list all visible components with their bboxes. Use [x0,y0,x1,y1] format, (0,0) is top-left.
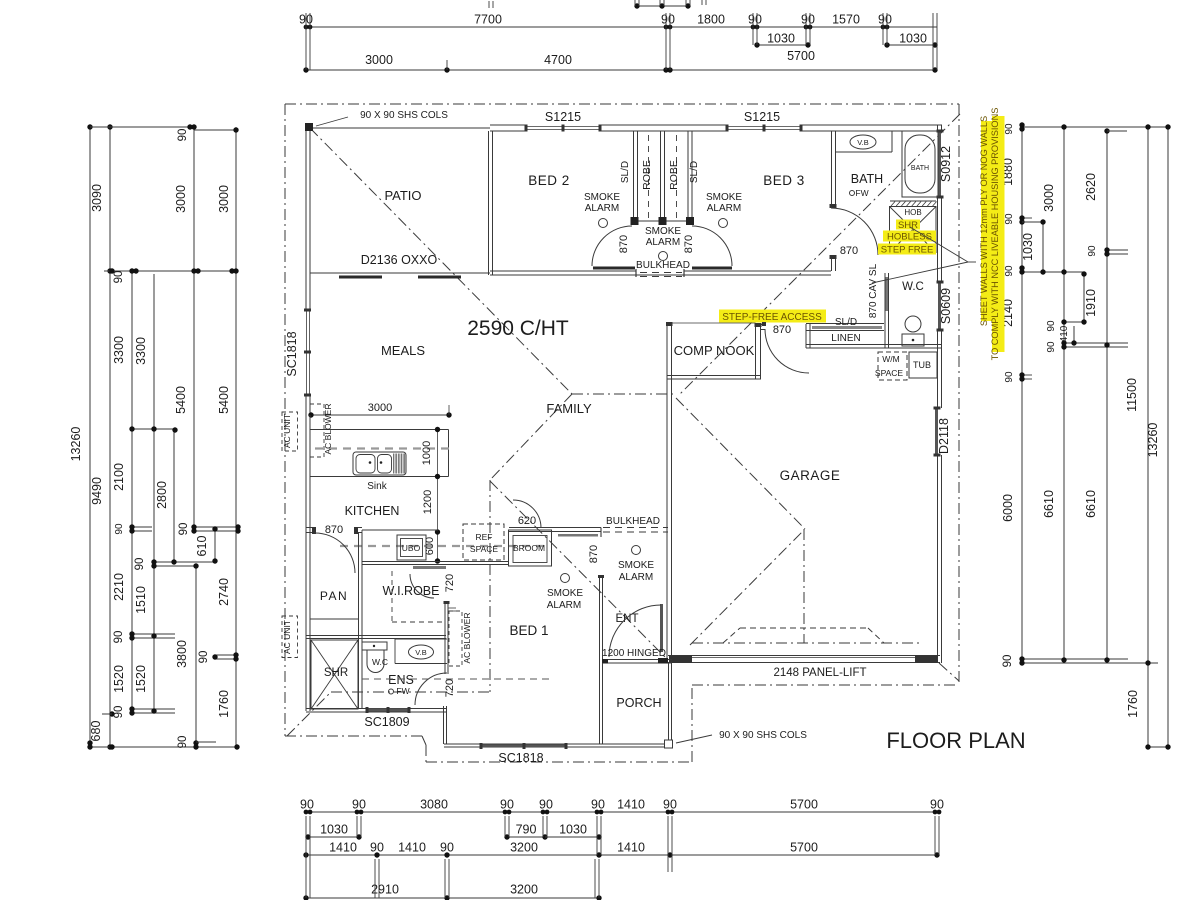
svg-text:MEALS: MEALS [381,343,425,358]
svg-text:3300: 3300 [134,337,148,365]
svg-text:1200: 1200 [422,490,434,514]
svg-text:SHR: SHR [898,220,918,231]
svg-text:1410: 1410 [617,798,645,812]
svg-text:90: 90 [113,631,125,644]
svg-text:3000: 3000 [365,53,393,67]
svg-text:13260: 13260 [1146,423,1160,458]
svg-text:TO COMPLY WITH NCC LIVEABLE HO: TO COMPLY WITH NCC LIVEABLE HOUSING PROV… [990,108,1000,361]
svg-text:3300: 3300 [112,336,126,364]
svg-text:90: 90 [178,523,190,536]
svg-text:6610: 6610 [1042,490,1056,518]
svg-text:90 X 90 SHS COLS: 90 X 90 SHS COLS [360,110,448,121]
svg-text:90: 90 [748,13,762,27]
svg-text:AC UNIT: AC UNIT [282,620,292,654]
svg-text:870: 870 [325,524,343,536]
svg-text:SC1809: SC1809 [364,715,409,729]
svg-text:90: 90 [878,13,892,27]
svg-text:FW: FW [396,686,409,696]
svg-text:1510: 1510 [134,586,148,614]
svg-text:2100: 2100 [112,463,126,491]
svg-text:ROBE: ROBE [668,160,680,190]
svg-text:1410: 1410 [329,841,357,855]
svg-text:90: 90 [177,736,189,749]
svg-text:PATIO: PATIO [384,188,421,203]
svg-text:1910: 1910 [1084,289,1098,317]
svg-text:SMOKE: SMOKE [645,226,681,237]
svg-text:90: 90 [1004,123,1015,135]
svg-text:720: 720 [444,574,456,592]
svg-text:LINEN: LINEN [831,333,860,344]
svg-text:TUB: TUB [913,360,931,370]
svg-text:S0912: S0912 [939,146,953,182]
svg-text:90: 90 [1046,320,1057,332]
svg-text:3000: 3000 [368,402,392,414]
svg-text:1030: 1030 [1021,233,1035,261]
svg-text:870: 870 [840,245,858,257]
svg-text:1760: 1760 [217,690,231,718]
svg-text:2210: 2210 [112,573,126,601]
svg-text:410: 410 [1059,325,1070,342]
svg-text:1030: 1030 [899,32,927,46]
svg-text:7700: 7700 [474,13,502,27]
svg-text:PAN: PAN [320,589,348,603]
svg-text:BATH: BATH [851,172,883,186]
svg-text:90: 90 [198,651,210,664]
svg-text:610: 610 [195,536,209,557]
svg-text:ALARM: ALARM [646,237,680,248]
svg-text:1030: 1030 [767,32,795,46]
svg-text:3080: 3080 [420,798,448,812]
svg-text:3000: 3000 [1042,184,1056,212]
svg-text:COMP NOOK: COMP NOOK [674,343,755,358]
svg-text:3200: 3200 [510,883,538,897]
svg-text:S0609: S0609 [939,288,953,324]
svg-text:870: 870 [588,545,600,563]
svg-text:STEP FREE: STEP FREE [881,245,934,256]
svg-text:SL/D: SL/D [689,161,700,183]
svg-text:3000: 3000 [174,185,188,213]
svg-text:90: 90 [663,798,677,812]
svg-text:90: 90 [113,706,125,719]
svg-text:620: 620 [518,515,536,527]
svg-text:5700: 5700 [790,841,818,855]
svg-text:AC BLOWER: AC BLOWER [462,612,472,663]
svg-text:870 CAV SL: 870 CAV SL [868,263,879,318]
svg-text:90: 90 [591,798,605,812]
svg-text:5400: 5400 [217,386,231,414]
svg-text:90: 90 [539,798,553,812]
svg-text:90: 90 [1004,265,1015,277]
svg-text:13260: 13260 [69,427,83,462]
svg-text:SMOKE: SMOKE [706,192,742,203]
svg-text:SL/D: SL/D [620,161,631,183]
svg-text:90: 90 [440,841,454,855]
svg-text:BED 3: BED 3 [763,173,805,188]
svg-text:4700: 4700 [544,53,572,67]
svg-text:90 X 90 SHS COLS: 90 X 90 SHS COLS [719,730,807,741]
svg-text:BED 2: BED 2 [528,173,570,188]
svg-text:1030: 1030 [320,823,348,837]
svg-text:BULKHEAD: BULKHEAD [606,516,660,527]
svg-text:ENS: ENS [388,673,414,687]
svg-text:BATH: BATH [911,165,929,172]
svg-text:2620: 2620 [1084,173,1098,201]
svg-text:SHEET WALLS WITH 12mm PLY OR N: SHEET WALLS WITH 12mm PLY OR NOG WALLS [979,116,989,326]
svg-text:SPACE: SPACE [875,368,904,378]
svg-text:9490: 9490 [90,477,104,505]
svg-text:SC1818: SC1818 [498,751,543,765]
svg-text:HOBLESS: HOBLESS [887,232,932,243]
svg-text:5700: 5700 [790,798,818,812]
svg-text:STEP-FREE ACCESS: STEP-FREE ACCESS [722,312,822,323]
svg-text:6000: 6000 [1001,494,1015,522]
svg-text:1200 HINGED: 1200 HINGED [602,648,666,659]
svg-text:1570: 1570 [832,13,860,27]
svg-text:6610: 6610 [1084,490,1098,518]
svg-text:Sink: Sink [367,481,387,492]
svg-text:5700: 5700 [787,49,815,63]
svg-text:1760: 1760 [1126,690,1140,718]
svg-text:90: 90 [1046,341,1057,353]
svg-text:90: 90 [661,13,675,27]
svg-text:870: 870 [683,235,695,253]
svg-text:UBO: UBO [402,543,421,553]
svg-text:90: 90 [177,129,189,142]
svg-text:1000: 1000 [421,441,433,465]
svg-text:V.B: V.B [857,138,868,147]
svg-text:BULKHEAD: BULKHEAD [636,260,690,271]
svg-text:SMOKE: SMOKE [584,192,620,203]
svg-text:1520: 1520 [134,665,148,693]
svg-text:W/M: W/M [882,354,899,364]
svg-text:1800: 1800 [697,13,725,27]
svg-text:S1215: S1215 [545,110,581,124]
svg-text:FAMILY: FAMILY [546,401,592,416]
svg-text:FW: FW [855,188,868,198]
svg-text:1520: 1520 [112,665,126,693]
svg-text:90: 90 [370,841,384,855]
svg-text:SMOKE: SMOKE [618,560,654,571]
svg-text:V.B: V.B [415,648,426,657]
svg-text:2740: 2740 [217,578,231,606]
svg-text:W.C: W.C [902,281,924,293]
svg-text:AC BLOWER: AC BLOWER [323,403,333,454]
svg-text:90: 90 [300,798,314,812]
svg-text:90: 90 [352,798,366,812]
svg-text:680: 680 [89,721,103,742]
svg-text:3090: 3090 [90,184,104,212]
svg-text:D2136 OXXO: D2136 OXXO [361,253,438,267]
svg-text:S1215: S1215 [744,110,780,124]
svg-text:1030: 1030 [559,823,587,837]
svg-text:D2118: D2118 [937,418,951,454]
svg-text:SHR: SHR [324,667,348,679]
svg-text:SL/D: SL/D [835,317,857,328]
svg-text:ALARM: ALARM [619,572,653,583]
svg-text:ALARM: ALARM [585,203,619,214]
svg-text:BED 1: BED 1 [509,623,548,638]
svg-text:PORCH: PORCH [616,696,661,710]
svg-text:BROOM: BROOM [513,543,545,553]
svg-text:90: 90 [1004,371,1015,383]
svg-text:2590 C/HT: 2590 C/HT [467,317,569,340]
svg-text:90: 90 [1087,245,1098,257]
svg-text:11500: 11500 [1125,378,1139,412]
svg-text:90: 90 [134,558,146,571]
svg-text:2800: 2800 [155,481,169,509]
svg-text:5400: 5400 [174,386,188,414]
svg-text:SMOKE: SMOKE [547,588,583,599]
svg-text:ROBE: ROBE [641,160,653,190]
svg-text:90: 90 [1004,213,1015,225]
svg-text:2148 PANEL-LIFT: 2148 PANEL-LIFT [773,667,866,679]
svg-text:1410: 1410 [398,841,426,855]
svg-text:GARAGE: GARAGE [780,468,841,483]
svg-text:90: 90 [930,798,944,812]
svg-text:REF: REF [476,532,493,542]
svg-text:90: 90 [801,13,815,27]
svg-text:SC1818: SC1818 [285,331,299,376]
svg-text:90: 90 [113,271,125,284]
svg-text:ALARM: ALARM [707,203,741,214]
svg-text:HOB: HOB [904,208,921,217]
svg-text:AC UNIT: AC UNIT [282,414,292,448]
svg-text:3800: 3800 [175,640,189,668]
svg-text:ENT: ENT [616,613,639,625]
svg-text:790: 790 [516,823,537,837]
svg-text:3000: 3000 [217,185,231,213]
svg-text:1410: 1410 [617,841,645,855]
svg-text:90: 90 [500,798,514,812]
svg-text:SPACE: SPACE [470,544,499,554]
svg-text:FLOOR PLAN: FLOOR PLAN [886,728,1025,753]
svg-text:W.I.ROBE: W.I.ROBE [383,584,440,598]
svg-text:870: 870 [773,324,791,336]
svg-text:ALARM: ALARM [547,600,581,611]
svg-text:W.C: W.C [372,657,388,667]
svg-text:3200: 3200 [510,841,538,855]
svg-text:90: 90 [1002,655,1014,668]
svg-text:720: 720 [444,679,456,697]
svg-text:870: 870 [618,235,630,253]
svg-text:KITCHEN: KITCHEN [345,504,400,518]
svg-text:90: 90 [114,523,125,535]
